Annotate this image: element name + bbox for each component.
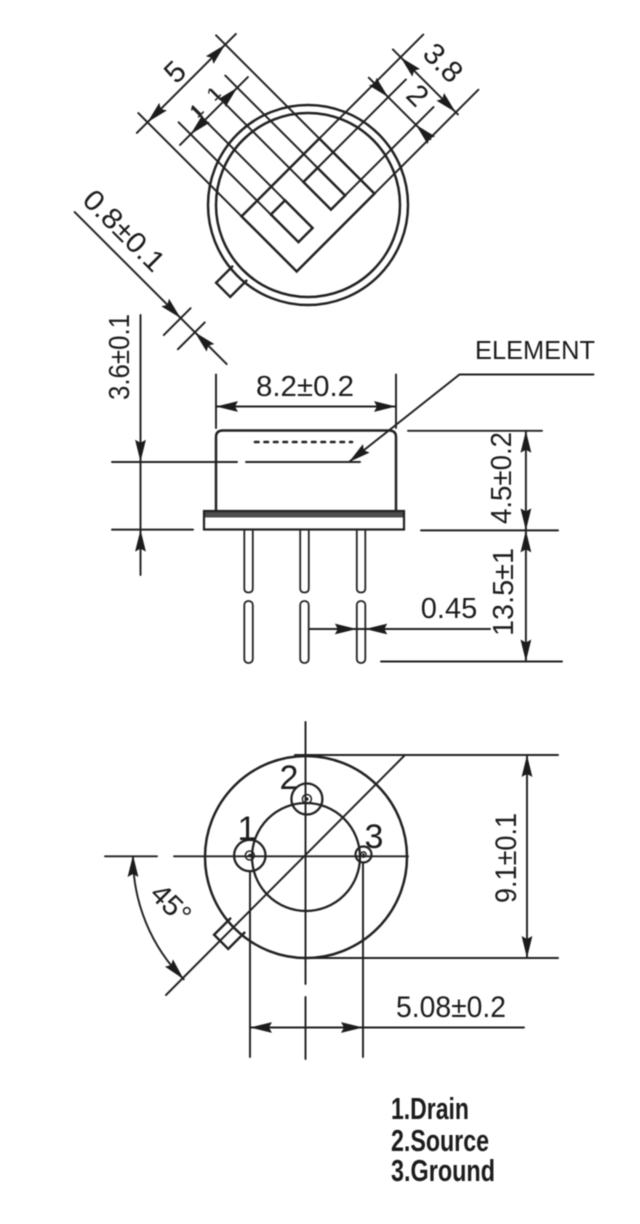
extension line frame corner u=+55 bbox=[216, 35, 319, 138]
lead 2 lower bbox=[300, 601, 309, 663]
extension line lead bottom right bbox=[381, 661, 562, 663]
bottom view outer circle bbox=[205, 756, 407, 958]
can body bbox=[216, 431, 396, 512]
extension line tab edge 1 bbox=[164, 308, 191, 335]
svg-text:1.Drain: 1.Drain bbox=[391, 1091, 469, 1126]
extension line pin3 down bbox=[362, 863, 364, 1057]
svg-text:13.5±1: 13.5±1 bbox=[488, 548, 520, 636]
extension line window edge u=+33 bbox=[225, 76, 317, 168]
extension line window edge u=+13 bbox=[211, 90, 303, 182]
svg-text:5: 5 bbox=[158, 55, 193, 90]
dimension line 5.08 bbox=[250, 1027, 524, 1029]
flange dark bar bbox=[204, 511, 404, 518]
dotted element line bbox=[255, 441, 352, 444]
extension line can top right bbox=[408, 430, 542, 432]
pin 3 circle bbox=[356, 847, 372, 863]
svg-text:2: 2 bbox=[400, 78, 435, 113]
svg-text:9.1±0.1: 9.1±0.1 bbox=[490, 813, 523, 903]
extension line can right for 8.2 bbox=[395, 375, 397, 429]
lead 3 upper bbox=[357, 530, 366, 593]
window frame rectangle bbox=[242, 139, 375, 272]
diagonal 45 line bbox=[166, 756, 404, 995]
dimension line 9.1 bbox=[526, 755, 528, 958]
vertical centerline bbox=[305, 722, 307, 1059]
lead 3 lower bbox=[357, 601, 366, 663]
extension line frame right corner v=+39 bbox=[374, 90, 478, 194]
extension line circle bottom right bbox=[310, 957, 558, 959]
dimension line 1,1 bbox=[180, 77, 248, 145]
extension line right window v=+19.5 bbox=[345, 107, 433, 195]
svg-text:2: 2 bbox=[280, 759, 299, 797]
tab on bottom view bbox=[214, 919, 244, 949]
extension line pin1 down bbox=[249, 871, 251, 1057]
svg-text:45°: 45° bbox=[144, 878, 198, 932]
lead 1 upper bbox=[244, 530, 253, 593]
lead 2 upper bbox=[300, 530, 309, 593]
svg-text:5.08±0.2: 5.08±0.2 bbox=[396, 991, 506, 1024]
element line bbox=[112, 461, 237, 463]
extension line window edge u=-13 bbox=[193, 108, 285, 200]
dimension line 4.5 / 13.5 vertical bbox=[525, 431, 527, 662]
svg-text:4.5±0.2: 4.5±0.2 bbox=[486, 432, 518, 524]
45 degree arc bbox=[133, 857, 184, 979]
dimension line 0.8 bbox=[75, 212, 227, 364]
svg-text:0.45: 0.45 bbox=[421, 593, 477, 625]
dimension line 0.45 bbox=[309, 628, 490, 630]
top view outer circle bbox=[208, 105, 408, 305]
lead 1 lower bbox=[244, 601, 253, 663]
extension line frame corner u=-55 bbox=[138, 113, 241, 216]
extension line window edge u=-33 bbox=[179, 122, 271, 214]
svg-text:8.2±0.2: 8.2±0.2 bbox=[256, 371, 354, 403]
extension line right window v=-19.5 bbox=[318, 79, 406, 167]
svg-text:1: 1 bbox=[238, 810, 257, 848]
dimension line 3.6 vertical bbox=[140, 315, 142, 575]
element leader line bbox=[349, 375, 594, 463]
pin 2 circle bbox=[291, 784, 322, 815]
extension line flange bottom left bbox=[112, 529, 193, 531]
extension line flange bottom right bbox=[421, 529, 558, 531]
svg-text:3.6±0.1: 3.6±0.1 bbox=[104, 314, 136, 400]
extension line tab edge 2 bbox=[178, 322, 205, 349]
dimension line 2 bbox=[369, 78, 431, 140]
pin 1 circle bbox=[234, 840, 265, 871]
dimension line 3.8 bbox=[393, 49, 458, 114]
extension line circle top right bbox=[295, 754, 558, 756]
svg-text:3.Ground: 3.Ground bbox=[391, 1153, 495, 1188]
top view inner circle bbox=[216, 113, 400, 297]
tab on top view bbox=[216, 267, 246, 297]
dimension line 5 bbox=[137, 34, 236, 133]
dimension line 8.2 bbox=[216, 406, 396, 408]
svg-text:ELEMENT: ELEMENT bbox=[475, 335, 595, 365]
svg-text:0.8±0.1: 0.8±0.1 bbox=[76, 184, 171, 279]
extension line can left for 8.2 bbox=[215, 375, 217, 429]
bottom view inner circle bbox=[252, 803, 360, 911]
flange outline bbox=[204, 511, 404, 530]
svg-text:3: 3 bbox=[365, 818, 384, 856]
element window left bbox=[271, 200, 313, 242]
extension line frame right corner v=-39 bbox=[319, 35, 423, 139]
horizontal centerline bbox=[105, 855, 408, 857]
element window right bbox=[303, 168, 345, 210]
